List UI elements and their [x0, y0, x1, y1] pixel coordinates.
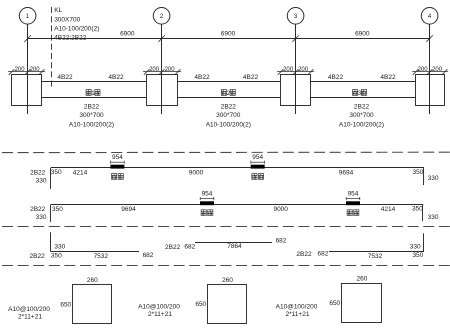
grid bubble axis 2 — [153, 8, 170, 25]
column 2 width dim line — [143, 71, 181, 73]
stirrup section 2 — [208, 285, 247, 324]
bottom bar span2 line — [195, 242, 272, 244]
svg-text:6900: 6900 — [221, 31, 236, 38]
svg-text:6900: 6900 — [355, 31, 370, 38]
dimension tick at axis 2 — [158, 35, 164, 41]
svg-text:200: 200 — [165, 67, 176, 73]
bottom bar span1 line — [51, 251, 139, 253]
bottom bar span3 line — [329, 251, 424, 253]
stirrup section 3 — [342, 284, 382, 323]
svg-text:4B22: 4B22 — [57, 74, 73, 81]
top bar row2 left hook — [50, 205, 52, 222]
svg-text:4B22: 4B22 — [108, 74, 124, 81]
svg-text:682: 682 — [276, 238, 287, 245]
svg-text:300*700: 300*700 — [79, 112, 104, 119]
row2 splice right — [346, 190, 360, 205]
svg-text:2B22: 2B22 — [30, 169, 46, 176]
column 4 — [416, 75, 445, 106]
svg-text:2*11+21: 2*11+21 — [148, 311, 172, 318]
column 2 dim tick left — [144, 69, 150, 75]
svg-text:200: 200 — [149, 67, 160, 73]
svg-text:682: 682 — [143, 252, 154, 259]
svg-text:4B22;2B22: 4B22;2B22 — [54, 35, 87, 42]
beam span 1 bottom line — [42, 97, 147, 99]
column 3 width dim line — [277, 71, 314, 73]
top bar row1 left hook — [50, 168, 52, 189]
svg-text:7864: 7864 — [227, 243, 242, 250]
dimension tick at axis 1 — [24, 35, 30, 41]
svg-text:4214: 4214 — [381, 206, 396, 213]
svg-text:2B22: 2B22 — [296, 251, 312, 258]
top bar row1 right hook — [423, 168, 425, 185]
svg-text:200: 200 — [30, 67, 41, 73]
column 2 dim tick centre — [159, 69, 165, 75]
svg-text:260: 260 — [87, 277, 98, 284]
svg-text:330: 330 — [428, 214, 439, 221]
svg-text:350: 350 — [51, 169, 62, 176]
beam span 3 top line — [311, 81, 416, 83]
svg-text:2B22: 2B22 — [30, 253, 46, 260]
svg-text:300*700: 300*700 — [349, 112, 374, 119]
column 2 — [147, 75, 178, 106]
svg-text:300*700: 300*700 — [216, 112, 241, 119]
span name 第1跨 — [86, 90, 100, 97]
svg-text:650: 650 — [60, 301, 71, 308]
svg-text:7532: 7532 — [368, 253, 383, 260]
beam span 1 top line — [42, 81, 147, 83]
bottom bar span1 hook — [50, 232, 52, 251]
grid line 1 vertical — [27, 24, 29, 114]
bottom bar span3 hook — [423, 233, 425, 251]
svg-text:350: 350 — [412, 252, 423, 259]
span name 第2跨 — [221, 90, 235, 97]
grid bubble axis 3 — [287, 8, 304, 25]
beam span 2 bottom line — [178, 97, 281, 99]
svg-text:7532: 7532 — [94, 253, 109, 260]
svg-text:2*11+21: 2*11+21 — [286, 311, 310, 318]
svg-text:2B22: 2B22 — [84, 103, 100, 110]
svg-text:A10@100/200: A10@100/200 — [276, 304, 318, 311]
svg-text:A10@100/200: A10@100/200 — [8, 306, 50, 313]
svg-text:954: 954 — [202, 190, 213, 197]
beam span 2 top line — [178, 81, 281, 83]
svg-text:A10-100/200(2): A10-100/200(2) — [339, 121, 384, 128]
row1 splice right binding text — [252, 174, 264, 180]
svg-text:682: 682 — [184, 243, 195, 250]
top bar row1 line — [51, 167, 424, 169]
column 4 dim tick left — [413, 69, 419, 75]
svg-text:2B22: 2B22 — [165, 244, 181, 251]
column 1 width dim line — [8, 71, 45, 73]
column 1 dim tick left — [9, 69, 15, 75]
svg-text:350: 350 — [413, 169, 424, 176]
svg-text:650: 650 — [329, 300, 340, 307]
svg-text:200: 200 — [432, 67, 443, 73]
beam span 3 bottom line — [311, 97, 416, 99]
top bar row2 right hook — [422, 205, 424, 221]
column 4 dim tick centre — [427, 69, 433, 75]
overall dimension line — [28, 38, 430, 40]
svg-text:4B22: 4B22 — [243, 74, 259, 81]
grid line 4 vertical — [429, 24, 431, 114]
svg-text:2B22: 2B22 — [30, 206, 46, 213]
beam label leader dashed line — [51, 7, 53, 88]
row2 splice left binding text — [201, 210, 213, 216]
dimension tick at axis 4 — [426, 35, 432, 41]
row1 splice left binding text — [112, 174, 124, 180]
svg-text:4214: 4214 — [73, 170, 88, 177]
svg-text:2B22: 2B22 — [221, 103, 237, 110]
svg-text:9000: 9000 — [273, 206, 288, 213]
dimension tick at axis 3 — [292, 35, 298, 41]
svg-text:330: 330 — [428, 175, 439, 182]
svg-text:682: 682 — [317, 250, 328, 257]
column 3 dim tick left — [278, 69, 284, 75]
svg-text:A10@100/200: A10@100/200 — [138, 304, 180, 311]
row2 splice right binding text — [347, 210, 359, 216]
grid bubble axis 4 — [421, 8, 438, 25]
row1 splice left — [110, 154, 124, 169]
svg-text:954: 954 — [252, 154, 263, 161]
svg-text:2*11+21: 2*11+21 — [18, 313, 42, 320]
column 1 dim tick centre — [25, 69, 31, 75]
column 2 dim tick right — [175, 69, 181, 75]
separator dashed line 2 — [2, 226, 450, 228]
svg-text:4B22: 4B22 — [328, 74, 344, 81]
svg-text:260: 260 — [356, 276, 367, 283]
column 4 width dim line — [412, 71, 448, 73]
svg-text:330: 330 — [36, 177, 47, 184]
column 3 dim tick right — [308, 69, 314, 75]
svg-text:KL: KL — [54, 7, 62, 14]
grid line 2 vertical — [161, 24, 163, 114]
svg-text:200: 200 — [418, 67, 429, 73]
svg-text:4B22: 4B22 — [194, 74, 210, 81]
svg-text:350: 350 — [51, 252, 62, 259]
column 3 dim tick centre — [293, 69, 299, 75]
grid line 3 vertical — [295, 24, 297, 114]
column 1 dim tick right — [39, 69, 45, 75]
svg-text:4B22: 4B22 — [380, 74, 396, 81]
svg-text:A10-100/200(2): A10-100/200(2) — [206, 121, 251, 128]
svg-text:260: 260 — [222, 277, 233, 284]
svg-text:350: 350 — [412, 205, 423, 212]
svg-text:954: 954 — [348, 190, 359, 197]
separator dashed line 3 — [2, 265, 450, 267]
top bar row2 line — [51, 204, 424, 206]
span name 第3跨 — [353, 90, 367, 97]
svg-text:9694: 9694 — [339, 170, 354, 177]
svg-text:9694: 9694 — [121, 206, 136, 213]
svg-text:350: 350 — [52, 206, 63, 213]
svg-text:A10-100/200(2): A10-100/200(2) — [54, 26, 99, 33]
grid bubble axis 1 — [19, 8, 36, 25]
svg-text:954: 954 — [112, 154, 123, 161]
stirrup section 1 — [73, 285, 112, 324]
row2 splice left — [200, 190, 214, 205]
svg-text:9000: 9000 — [189, 170, 204, 177]
svg-text:200: 200 — [283, 67, 294, 73]
svg-text:6900: 6900 — [120, 31, 135, 38]
svg-text:A10-100/200(2): A10-100/200(2) — [69, 121, 114, 128]
svg-text:200: 200 — [15, 67, 26, 73]
svg-text:330: 330 — [36, 214, 47, 221]
svg-text:650: 650 — [195, 301, 206, 308]
svg-text:330: 330 — [54, 243, 65, 250]
svg-text:200: 200 — [298, 67, 309, 73]
svg-text:2B22: 2B22 — [354, 103, 370, 110]
column 3 — [281, 75, 311, 106]
column 4 dim tick right — [442, 69, 448, 75]
svg-text:300X700: 300X700 — [54, 17, 80, 24]
svg-text:330: 330 — [410, 243, 421, 250]
row1 splice right — [251, 154, 265, 169]
separator dashed line 1 — [2, 151, 450, 153]
column 1 — [12, 75, 42, 106]
